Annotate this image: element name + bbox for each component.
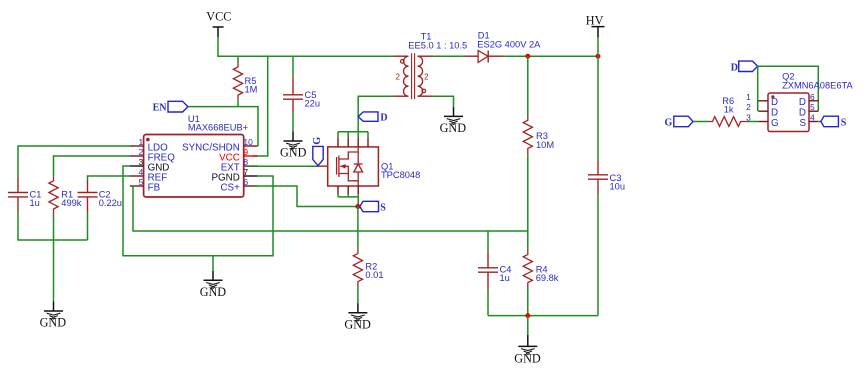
resistor R6 [709,96,747,126]
wire VCC to pin 9 [253,56,268,156]
svg-text:10M: 10M [536,140,554,150]
svg-text:8: 8 [243,157,248,167]
wire pin3 GND loop to pin7 PGND [123,166,273,256]
capacitor C5 [283,78,320,112]
svg-text:5: 5 [810,102,815,112]
Q2 pin 5 D [799,102,818,118]
svg-text:5: 5 [138,177,143,187]
wire pin1 to C1 [18,146,131,177]
wire C3 bottom [597,194,599,316]
svg-text:0.22u: 0.22u [99,198,122,208]
wire R3 top [527,56,529,117]
wire C5 bottom [292,112,294,131]
Q2 pin 4 S [799,113,818,129]
wire transformer secondary top to D1 [433,55,464,57]
wire Q1 drain bus [338,131,368,133]
wire R6 to Q2 gate pin [747,121,759,123]
resistor R3 [523,117,554,156]
wire R4 bottom [527,288,529,316]
svg-text:1: 1 [138,137,143,147]
svg-text:1M: 1M [245,84,258,94]
capacitor C2 [78,180,122,212]
svg-text:1u: 1u [500,273,510,283]
op-amp U1 MAX668EUB+ body [144,114,249,197]
transistor Q2 ZXMN6A08E6TA body [768,72,854,132]
wire C1 bottom [18,212,88,240]
U1 pin 7 PGND [211,167,257,184]
wire drain to transformer [358,96,393,132]
ground below T1 [440,107,467,135]
diode D1 ES2G [464,31,541,63]
svg-text:ZXMN6A08E6TA: ZXMN6A08E6TA [782,80,853,90]
svg-text:69.8k: 69.8k [536,273,559,283]
svg-text:TPC8048: TPC8048 [381,170,420,180]
svg-text:2: 2 [424,72,429,81]
wire ground stub bottom [527,316,529,335]
capacitor C4 [478,252,511,290]
svg-text:GND: GND [280,146,307,160]
U1 pin 3 GND [130,157,169,174]
U1 pin 5 FB [130,177,161,194]
svg-text:3: 3 [138,157,143,167]
wire R2 bottom [357,287,359,303]
wire R5 top stub [237,56,239,62]
svg-text:GND: GND [440,121,467,135]
wire HV stub [597,37,599,57]
wire D port to Q2 right pins [758,66,819,111]
port EN [153,101,188,113]
ground below R1 [40,301,67,329]
wire pin2 to R1 [54,156,131,176]
Q2 pin 3 G [746,113,779,129]
svg-text:1: 1 [746,92,751,102]
svg-text:G: G [312,137,323,145]
ground bottom right [514,335,541,366]
port G at Q1 gate [312,137,323,166]
junction node R3 tap [525,54,530,59]
wire source to R2 [357,207,359,250]
wire R5 bottom stub [237,99,239,106]
wire transformer secondary bottom to ground [433,96,454,107]
U1 pin 4 REF [130,167,167,184]
wire R4 top [527,231,529,251]
wire R1 bottom to ground [53,214,55,302]
wire Q2 source to S port [818,121,821,123]
resistor R1 [49,176,82,213]
svg-text:0.01: 0.01 [365,270,383,280]
svg-text:D: D [799,97,806,108]
svg-text:EN: EN [153,103,168,114]
port D at Q1 drain [358,112,387,124]
resistor R5 [233,63,257,100]
svg-text:1k: 1k [724,105,734,115]
svg-text:GND: GND [200,285,227,299]
ground below U1 [200,271,227,299]
wire R3 bottom to FB node [527,155,529,231]
wire D port to Q2 left pins [757,66,759,111]
wire G port to R6 [693,121,709,123]
svg-text:GND: GND [344,317,371,331]
svg-text:HV: HV [586,13,604,27]
wire C5 top [292,56,294,78]
svg-text:G: G [665,118,673,129]
Q1 top drain pins [338,132,368,147]
wire C2 bottom [87,212,89,240]
U1 pin 10 SYNC/SHDN [182,137,258,154]
svg-text:VCC: VCC [206,10,231,24]
svg-text:MAX668EUB+: MAX668EUB+ [188,122,248,132]
power port VCC [206,10,231,37]
wire CS+ to sense node [253,186,357,207]
port S at Q1 source [360,201,387,213]
svg-text:22u: 22u [305,98,321,108]
resistor R4 [523,251,559,289]
Q2 pin 6 D [799,92,818,108]
svg-text:2: 2 [395,72,400,81]
resistor R2 [353,249,383,287]
wire FB to feedback node [131,186,528,231]
U1 pin 1 LDO [130,137,168,154]
svg-text:ES2G 400V 2A: ES2G 400V 2A [477,39,541,49]
Q2 pin 2 D [746,102,778,118]
capacitor C3 [588,160,625,195]
wire EXT to gate [246,165,318,167]
ground below R2 [344,303,371,331]
U1 pin 6 CS+ [220,177,257,194]
wire pin4 to C2 [88,176,131,180]
ground below C5 [280,131,307,159]
wire D1 to HV [503,55,598,57]
U1 pin 9 VCC [219,147,258,164]
U1 pin 8 EXT [221,157,258,174]
junction node source/CS [355,204,360,209]
junction node HV tap [596,54,601,59]
wire C4 bottom [487,290,489,316]
port G at Q2 [665,116,693,128]
transistor Q1 TPC8048 gate lead [318,165,337,167]
wire VCC rail [218,37,393,57]
Q2 pin 1 D [746,92,778,108]
svg-text:7: 7 [243,167,248,177]
svg-text:499k: 499k [61,198,82,208]
svg-text:1u: 1u [30,198,40,208]
svg-text:4: 4 [138,167,143,177]
svg-text:GND: GND [40,316,67,330]
wire C3 top [597,56,599,159]
svg-text:CS+: CS+ [220,183,240,194]
svg-text:GND: GND [514,351,541,365]
wire ground stub below U1 [212,256,214,271]
wire C4 top [487,231,489,252]
svg-text:2: 2 [138,147,143,157]
svg-text:6: 6 [243,177,248,187]
transistor Q1 TPC8048 [328,147,421,186]
svg-text:10: 10 [243,137,253,147]
svg-text:4: 4 [810,113,815,123]
svg-text:10u: 10u [610,181,626,191]
junction node ground rail [525,313,530,318]
U1 pin 2 FREQ [130,147,175,164]
capacitor C1 [8,177,41,212]
wire bottom ground rail [488,315,598,317]
svg-text:S: S [799,118,806,129]
svg-text:D: D [771,97,778,108]
svg-text:S: S [380,203,386,214]
svg-text:S: S [841,118,847,129]
svg-text:G: G [771,118,779,129]
svg-text:6: 6 [810,92,815,102]
power port HV [586,13,605,37]
transformer T1 [393,32,467,100]
svg-text:D: D [731,63,738,74]
svg-text:EE5.0 1 : 10.5: EE5.0 1 : 10.5 [408,40,467,50]
port D at Q2 [731,61,758,73]
port S at Q2 [821,116,847,129]
svg-text:9: 9 [243,147,248,157]
svg-text:D: D [380,113,387,124]
wire EN to pin 10 [188,107,258,146]
svg-text:2: 2 [746,102,751,112]
svg-text:FB: FB [148,183,161,194]
wire Q1 source bus [338,197,358,207]
svg-text:3: 3 [746,113,751,123]
Q1 bottom source pins [338,186,358,197]
